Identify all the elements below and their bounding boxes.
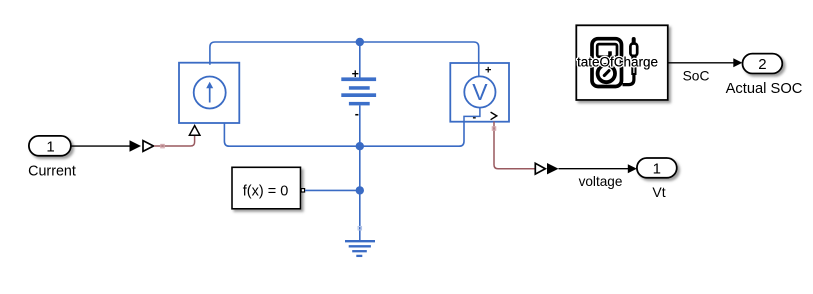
svg-text:-: -: [472, 112, 476, 124]
wire node to ground: [359, 146, 361, 241]
multimeter icon: display: [597, 44, 617, 57]
svg-text:+: +: [485, 65, 491, 77]
svg-text:f(x) = 0: f(x) = 0: [243, 183, 289, 199]
multimeter icon: probe tip: [632, 39, 636, 45]
node junction solver: [356, 186, 364, 194]
multimeter icon: probe body: [630, 44, 637, 56]
svg-text:tateOfCharge: tateOfCharge: [577, 55, 658, 70]
PS line port marker (sensor output): [492, 127, 495, 130]
PS input port triangle of current source: [189, 126, 200, 136]
wire physical signal (dark red) from sensor: [494, 122, 535, 169]
wire top rail: [210, 42, 479, 65]
svg-text:+: +: [352, 67, 359, 81]
solver block f(x)=0: [232, 167, 305, 209]
voltage sensor block U2: [450, 63, 509, 124]
multimeter icon: display notch: [608, 51, 612, 55]
current source block U1: [179, 63, 239, 123]
ground port marker: [358, 227, 361, 230]
multimeter icon: probe cable: [623, 74, 634, 85]
wire voltage signal with arrowhead: [559, 168, 629, 170]
svg-text:Current: Current: [28, 164, 76, 180]
svg-text:voltage: voltage: [579, 174, 623, 189]
multimeter icon: needle: [604, 71, 609, 76]
multimeter icon: dial: [598, 65, 615, 82]
svg-text:SoC: SoC: [683, 68, 710, 83]
wire SoC signal with arrowhead: [669, 62, 735, 64]
wire solver to node: [305, 189, 360, 191]
wire input signal (black): [72, 145, 130, 147]
svg-text:Actual SOC: Actual SOC: [726, 81, 803, 97]
outport 2 oval (Actual SOC): [743, 54, 783, 74]
svg-text:2: 2: [758, 56, 766, 73]
node junction top (battery +): [356, 38, 364, 46]
wire physical signal (dark red) into current source: [154, 136, 195, 146]
wire bottom rail: [224, 122, 464, 147]
multimeter icon: body: [592, 39, 622, 87]
svg-text:1: 1: [46, 138, 54, 155]
PS line port marker (left): [161, 144, 164, 147]
converter PS-Simulink (open triangle + filled arrow): [535, 163, 558, 174]
svg-text:V: V: [472, 79, 488, 105]
outport 1 oval (Vt): [637, 158, 677, 178]
multimeter icon: probe stem: [632, 57, 635, 75]
converter Simulink-PS (filled arrow + open triangle): [130, 140, 154, 152]
svg-text:-: -: [355, 107, 359, 121]
ground: [345, 241, 375, 256]
battery block StateOfCharge: [576, 25, 668, 100]
node junction bottom (battery -): [356, 142, 364, 150]
inport 1 oval (Current): [29, 136, 71, 156]
svg-text:Vt: Vt: [652, 184, 665, 200]
battery B1: [341, 42, 376, 146]
svg-text:1: 1: [653, 160, 661, 177]
